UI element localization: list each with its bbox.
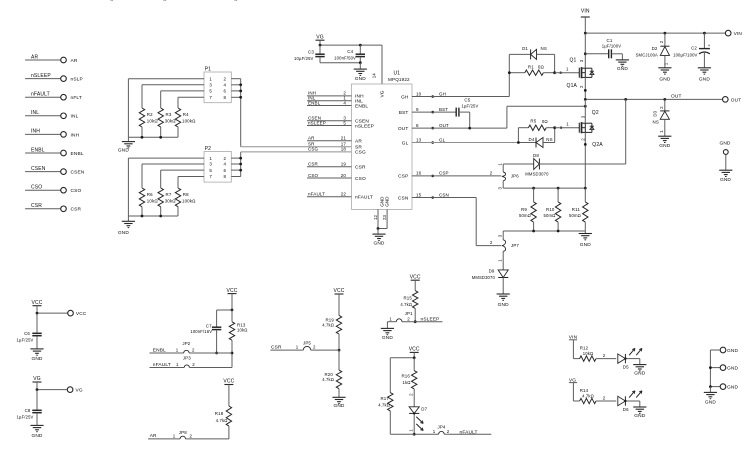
svg-text:4: 4 bbox=[224, 83, 227, 88]
capacitor C1 1uF/100V bbox=[585, 53, 608, 55]
resistor R5 0ohm bbox=[517, 128, 519, 143]
wire P1 right pins to bus bbox=[231, 78, 240, 80]
svg-text:VG: VG bbox=[76, 388, 83, 394]
wire net CSR input bbox=[25, 208, 61, 210]
svg-text:ENBL: ENBL bbox=[308, 100, 321, 105]
svg-text:100kΩ: 100kΩ bbox=[182, 198, 196, 203]
svg-text:g: g bbox=[110, 0, 114, 2]
junction dots OUT pin path bbox=[468, 127, 471, 130]
wire VG terminal bbox=[36, 382, 38, 390]
svg-text:CSEN: CSEN bbox=[31, 166, 46, 172]
wire P1 pin7 to R4 bbox=[178, 96, 204, 98]
svg-text:100nF/50V: 100nF/50V bbox=[334, 56, 356, 61]
junction dots Q2 gate node bbox=[517, 141, 520, 144]
junction dot VG bbox=[36, 388, 39, 391]
ground terminal block bbox=[709, 387, 711, 393]
svg-text:NS: NS bbox=[653, 119, 659, 124]
wire GH to gate network bbox=[412, 96, 509, 98]
svg-text:MMSD3070: MMSD3070 bbox=[472, 275, 496, 280]
svg-text:18: 18 bbox=[341, 147, 347, 152]
svg-text:2: 2 bbox=[224, 156, 227, 161]
svg-text:CSR: CSR bbox=[271, 345, 282, 351]
terminal nFLT bbox=[61, 94, 67, 100]
svg-text:CSG: CSG bbox=[308, 147, 319, 152]
resistor R19 4.7k bbox=[338, 294, 340, 315]
svg-text:4: 4 bbox=[343, 100, 346, 105]
U1 pin 2 INH bbox=[307, 95, 352, 97]
svg-text:2: 2 bbox=[490, 170, 493, 175]
svg-text:OUT: OUT bbox=[671, 94, 682, 100]
svg-text:VCC: VCC bbox=[410, 274, 421, 280]
ground C1 bbox=[621, 54, 623, 60]
capacitor C6 1uF/25V bbox=[36, 313, 38, 333]
wire Q2 gate bbox=[555, 127, 580, 129]
svg-text:1µF/25V: 1µF/25V bbox=[462, 103, 479, 108]
wire VG rail bbox=[319, 40, 321, 45]
capacitor C5 1uF/25V bbox=[455, 108, 457, 117]
capacitor C2 100uF/100V polarized bbox=[703, 33, 705, 49]
wire net INL input bbox=[25, 115, 61, 117]
junction dots Q1 gate node bbox=[508, 71, 511, 74]
ground floating terminal bbox=[719, 169, 732, 171]
svg-text:1µF/25V: 1µF/25V bbox=[17, 338, 34, 343]
svg-text:GND: GND bbox=[617, 66, 628, 72]
svg-text:C8: C8 bbox=[25, 408, 31, 413]
svg-text:GL: GL bbox=[402, 140, 409, 146]
svg-text:CSO: CSO bbox=[71, 188, 82, 194]
ground D5 bbox=[639, 359, 641, 365]
terminal ENBL bbox=[61, 150, 67, 156]
wire GND terminal to ground bbox=[725, 154, 727, 170]
resistor R2 10k bbox=[141, 85, 143, 108]
wire OUT pin 8 bbox=[412, 127, 507, 129]
U1 pin 20 CSO bbox=[307, 177, 352, 179]
svg-text:100nF/16V: 100nF/16V bbox=[190, 329, 212, 334]
svg-text:BST: BST bbox=[399, 110, 409, 116]
wire U1 ground pins bbox=[377, 209, 379, 228]
svg-text:GND: GND bbox=[699, 77, 710, 83]
junction dot Q2 source bbox=[584, 143, 587, 146]
svg-text:AR: AR bbox=[31, 54, 38, 60]
svg-text:g: g bbox=[234, 0, 238, 2]
svg-text:CSR: CSR bbox=[308, 162, 319, 167]
ground D6 bbox=[639, 401, 641, 407]
svg-text:VG: VG bbox=[380, 90, 386, 97]
wire R1 D1 right leg bbox=[554, 54, 556, 72]
wire GND terminals bus bbox=[709, 350, 711, 387]
connector P1 bbox=[204, 72, 231, 103]
svg-text:7: 7 bbox=[209, 174, 212, 179]
terminal OUT bbox=[723, 97, 729, 103]
svg-text:1: 1 bbox=[433, 429, 436, 434]
LED D5 arrows bbox=[629, 348, 635, 355]
svg-text:10: 10 bbox=[416, 91, 422, 96]
junction dot CSR node bbox=[338, 349, 341, 352]
ground P1 network bbox=[127, 137, 129, 141]
svg-text:D4: D4 bbox=[529, 137, 535, 142]
svg-text:nSLP: nSLP bbox=[71, 77, 83, 83]
svg-text:R12: R12 bbox=[580, 346, 589, 351]
wire resistor bottom rail P1 bbox=[128, 136, 178, 138]
svg-text:D7: D7 bbox=[421, 407, 427, 412]
resistor R1 0ohm bbox=[509, 72, 525, 74]
svg-text:OUT: OUT bbox=[731, 97, 742, 103]
svg-text:CSO: CSO bbox=[355, 176, 366, 182]
ground D3 bbox=[658, 135, 671, 137]
svg-text:4.7kΩ: 4.7kΩ bbox=[582, 393, 594, 398]
wire P1 pin1 to GND rail bbox=[128, 78, 204, 80]
svg-text:50mΩ: 50mΩ bbox=[544, 213, 556, 218]
transistor Q1 Q1A N-MOSFET bbox=[578, 68, 580, 78]
jumper JP1 net nSLEEP bbox=[387, 321, 396, 323]
wire C3 C4 ground rail bbox=[320, 62, 360, 64]
resistor R14 4.7k bbox=[573, 400, 579, 402]
capacitor C4 100nF/50V bbox=[359, 45, 361, 54]
svg-text:nFAULT: nFAULT bbox=[31, 92, 50, 98]
svg-text:9: 9 bbox=[416, 107, 419, 112]
svg-text:1: 1 bbox=[566, 67, 569, 72]
jumper JP6 bbox=[502, 164, 504, 172]
svg-text:nSLEEP: nSLEEP bbox=[31, 73, 51, 79]
junction dots VG rail bbox=[319, 44, 322, 47]
wire VG to R14 bbox=[572, 383, 574, 401]
svg-text:16: 16 bbox=[416, 171, 422, 176]
wire R5 D4 right leg bbox=[554, 128, 556, 143]
svg-text:R19: R19 bbox=[325, 317, 334, 322]
terminal CSO bbox=[61, 187, 67, 193]
terminal VIN bbox=[725, 30, 731, 36]
svg-text:5: 5 bbox=[343, 120, 346, 125]
resistor R15 4.7k bbox=[414, 280, 416, 290]
terminal VG bbox=[67, 387, 73, 393]
LED D6 arrows bbox=[629, 391, 635, 398]
svg-text:8: 8 bbox=[224, 95, 227, 100]
svg-text:0Ω: 0Ω bbox=[538, 64, 545, 69]
junction dot R16 top bbox=[413, 356, 416, 359]
svg-text:2: 2 bbox=[490, 240, 493, 245]
svg-text:NS: NS bbox=[541, 46, 547, 51]
svg-text:U1: U1 bbox=[394, 71, 401, 77]
wire VIN rail bbox=[585, 32, 725, 34]
svg-text:7: 7 bbox=[209, 95, 212, 100]
U1 pin 21 AR bbox=[307, 140, 352, 142]
wire Q1 drain bbox=[584, 33, 586, 68]
svg-text:2: 2 bbox=[447, 429, 450, 434]
diode D3 NS bbox=[664, 99, 666, 111]
svg-text:nFAULT: nFAULT bbox=[355, 195, 373, 201]
svg-text:GND: GND bbox=[498, 302, 509, 308]
svg-text:C4: C4 bbox=[347, 49, 353, 54]
wire sense resistor top rail bbox=[503, 187, 585, 189]
svg-text:VCC: VCC bbox=[223, 379, 234, 385]
wire net CSG to U1 bbox=[241, 151, 352, 153]
svg-text:21: 21 bbox=[341, 136, 347, 141]
wire net INH input bbox=[25, 133, 61, 135]
svg-text:VCC: VCC bbox=[76, 311, 87, 317]
svg-text:CSO: CSO bbox=[308, 173, 319, 178]
junction dot VCC bbox=[36, 312, 39, 315]
resistor R13 10k bbox=[231, 310, 233, 322]
svg-text:C3: C3 bbox=[308, 49, 314, 54]
svg-text:INH: INH bbox=[71, 132, 80, 138]
svg-text:nFLT: nFLT bbox=[71, 95, 82, 101]
terminal GND 3 bbox=[720, 384, 726, 390]
transistor Q2 Q2A N-MOSFET bbox=[578, 123, 580, 133]
svg-text:NS: NS bbox=[546, 137, 552, 142]
svg-text:3: 3 bbox=[209, 83, 212, 88]
svg-text:Q2A: Q2A bbox=[592, 142, 603, 148]
wire net nSLEEP input bbox=[25, 78, 61, 80]
wire P2 pin5 to R7 bbox=[161, 169, 204, 171]
ground C8 bbox=[30, 424, 43, 426]
svg-text:10µF/25V: 10µF/25V bbox=[294, 56, 313, 61]
resistor R18 4.7k bbox=[228, 385, 230, 407]
svg-text:R3: R3 bbox=[166, 112, 172, 117]
svg-text:MPQ1922: MPQ1922 bbox=[388, 77, 410, 82]
wire net GL bbox=[412, 142, 518, 144]
wire net ENBL jumper JP2 bbox=[150, 352, 184, 354]
resistor R4 100k bbox=[177, 97, 179, 108]
svg-text:2: 2 bbox=[192, 362, 195, 367]
svg-text:14: 14 bbox=[372, 73, 377, 78]
capacitor C7 100nF/16V bbox=[216, 310, 218, 327]
diode D2 SMCJ100A TVS bbox=[664, 33, 666, 46]
svg-text:ENBL: ENBL bbox=[71, 151, 84, 157]
U1 pin 22 nFAULT bbox=[307, 196, 352, 198]
svg-text:R5: R5 bbox=[530, 119, 536, 124]
svg-text:CSP: CSP bbox=[398, 174, 408, 180]
LED D7 arrows bbox=[416, 417, 423, 424]
LED D6 bbox=[618, 396, 626, 405]
ground D9 bbox=[497, 293, 510, 295]
svg-text:R1: R1 bbox=[528, 64, 534, 69]
svg-text:GND: GND bbox=[118, 230, 129, 236]
svg-text:2: 2 bbox=[190, 433, 193, 438]
ground D2 bbox=[658, 67, 671, 69]
svg-text:GH: GH bbox=[401, 94, 409, 100]
svg-text:GND: GND bbox=[659, 143, 670, 149]
junction dots GND bus bbox=[709, 366, 712, 369]
svg-text:Q2: Q2 bbox=[592, 110, 599, 116]
svg-text:R7: R7 bbox=[166, 192, 172, 197]
svg-text:CSN: CSN bbox=[439, 192, 449, 197]
op-amp U1 MPQ1922 gate driver IC bbox=[352, 84, 413, 209]
svg-text:GND: GND bbox=[580, 242, 591, 248]
svg-text:D8: D8 bbox=[533, 153, 539, 158]
svg-text:ENBL: ENBL bbox=[153, 347, 166, 353]
svg-text:GND: GND bbox=[382, 335, 393, 341]
svg-text:1: 1 bbox=[209, 156, 212, 161]
svg-text:VIN: VIN bbox=[734, 31, 743, 37]
svg-text:Q1: Q1 bbox=[570, 58, 577, 64]
wire BST stub bbox=[412, 111, 456, 113]
svg-text:1: 1 bbox=[173, 433, 176, 438]
svg-text:R13: R13 bbox=[237, 322, 246, 327]
svg-text:C1: C1 bbox=[607, 38, 613, 43]
wire sense resistor bottom rail bbox=[503, 230, 585, 232]
terminal INL bbox=[61, 113, 67, 119]
svg-text:12: 12 bbox=[373, 215, 378, 220]
svg-text:GND: GND bbox=[720, 177, 731, 183]
svg-text:CSR: CSR bbox=[355, 165, 366, 171]
wire P1 pin3 to R2 bbox=[142, 84, 204, 86]
svg-text:4.7kΩ: 4.7kΩ bbox=[322, 323, 334, 328]
svg-text:10kΩ: 10kΩ bbox=[583, 351, 593, 356]
svg-text:CSP: CSP bbox=[439, 171, 449, 176]
svg-text:30kΩ: 30kΩ bbox=[165, 198, 177, 203]
diode D1 NS bbox=[508, 54, 510, 72]
wire P2 pin3 to R6 bbox=[142, 163, 204, 165]
svg-text:1kΩ: 1kΩ bbox=[402, 380, 410, 385]
terminal CSR bbox=[61, 206, 67, 212]
svg-text:2: 2 bbox=[224, 76, 227, 81]
wire P2 pin7 to R8 bbox=[178, 176, 204, 178]
junction dots sense bottom rail bbox=[532, 230, 535, 233]
junction dot Q1 source bbox=[584, 89, 587, 92]
wire C5 to OUT bbox=[459, 111, 470, 113]
svg-text:15: 15 bbox=[416, 192, 422, 197]
ground C4 bbox=[359, 63, 361, 69]
wire VIN to R12 bbox=[572, 340, 574, 359]
ground C2 bbox=[703, 53, 705, 68]
svg-text:2: 2 bbox=[313, 345, 316, 350]
svg-text:D6: D6 bbox=[623, 407, 629, 412]
junction dots sense top rail bbox=[532, 187, 535, 190]
svg-text:13: 13 bbox=[416, 137, 422, 142]
svg-text:D1: D1 bbox=[522, 46, 528, 51]
svg-text:GND: GND bbox=[355, 76, 366, 82]
svg-text:C5: C5 bbox=[464, 98, 470, 103]
svg-text:5: 5 bbox=[209, 168, 212, 173]
svg-text:GND: GND bbox=[118, 147, 129, 153]
svg-text:R18: R18 bbox=[215, 411, 224, 416]
U1 pin 5 nSLEEP bbox=[307, 125, 352, 127]
svg-text:nSLEEP: nSLEEP bbox=[355, 123, 374, 129]
svg-text:6: 6 bbox=[224, 89, 227, 94]
svg-text:1: 1 bbox=[296, 345, 299, 350]
wire OUT rail bbox=[585, 98, 722, 100]
svg-text:CSR: CSR bbox=[71, 207, 82, 213]
svg-text:VCC: VCC bbox=[31, 300, 42, 306]
wire P2 right pins to bus bbox=[231, 157, 240, 159]
svg-text:CSN: CSN bbox=[398, 195, 409, 201]
svg-text:CSEN: CSEN bbox=[71, 170, 85, 176]
resistor R17 4.7k bbox=[389, 358, 391, 393]
ground R20 bbox=[332, 396, 345, 398]
svg-text:Q1A: Q1A bbox=[567, 83, 578, 89]
wire net ENBL input bbox=[25, 152, 61, 154]
resistor R20 4.7k bbox=[338, 350, 340, 370]
svg-text:50mΩ: 50mΩ bbox=[519, 213, 531, 218]
svg-text:nSLEEP: nSLEEP bbox=[421, 317, 440, 323]
svg-text:GND: GND bbox=[719, 141, 730, 147]
svg-text:GND: GND bbox=[634, 413, 645, 419]
svg-text:OUT: OUT bbox=[439, 123, 449, 128]
svg-text:2: 2 bbox=[192, 347, 195, 352]
terminal INH bbox=[61, 132, 67, 138]
svg-text:JP1: JP1 bbox=[405, 311, 413, 316]
junction dots P1 rail bbox=[141, 136, 144, 139]
svg-text:GND: GND bbox=[634, 371, 645, 377]
wire net CSP to JP6 bbox=[412, 175, 501, 177]
resistor R6 10k bbox=[141, 164, 143, 188]
svg-text:C6: C6 bbox=[24, 331, 30, 336]
svg-text:R14: R14 bbox=[580, 388, 589, 393]
ground R11 bbox=[579, 233, 592, 235]
wire P2 output bus vertical bbox=[240, 152, 242, 177]
junction dots ENBL node bbox=[215, 352, 218, 355]
svg-text:2: 2 bbox=[407, 316, 410, 321]
svg-text:4.7kΩ: 4.7kΩ bbox=[322, 377, 334, 382]
svg-text:1: 1 bbox=[176, 347, 179, 352]
wire Q2 drain from OUT node bbox=[584, 99, 586, 122]
wire net AR input bbox=[25, 59, 61, 61]
wire VCC terminal bbox=[36, 306, 38, 313]
junction dot R13 top bbox=[231, 309, 234, 312]
LED D7 bbox=[409, 407, 419, 414]
resistor R11 50mohm bbox=[584, 188, 586, 202]
jumper JP7 bbox=[502, 231, 504, 240]
svg-text:JP5: JP5 bbox=[303, 341, 311, 346]
svg-text:20: 20 bbox=[341, 173, 347, 178]
svg-text:4: 4 bbox=[224, 162, 227, 167]
junction dot U1 gnd bbox=[377, 227, 380, 230]
svg-text:SMCJ100A: SMCJ100A bbox=[636, 52, 658, 57]
svg-text:1µF/100V: 1µF/100V bbox=[602, 44, 621, 49]
wire VCC to R16 R17 bbox=[413, 352, 415, 357]
terminal CSEN bbox=[61, 169, 67, 175]
junction dots P2 bus bbox=[239, 157, 242, 160]
svg-text:VIN: VIN bbox=[581, 9, 590, 15]
svg-text:4.7kΩ: 4.7kΩ bbox=[400, 302, 412, 307]
wire net AR jumper JP8 bbox=[148, 438, 180, 440]
svg-text:CSO: CSO bbox=[31, 185, 42, 191]
svg-text:SR: SR bbox=[355, 145, 362, 151]
svg-text:JP2: JP2 bbox=[182, 341, 190, 346]
svg-text:CSG: CSG bbox=[355, 150, 366, 156]
svg-text:GND: GND bbox=[727, 385, 738, 391]
terminal VCC bbox=[68, 310, 74, 316]
junction dot C1 tap bbox=[584, 52, 587, 55]
jumper JP4 net nFAULT bbox=[390, 433, 438, 435]
wire net CSR jumper JP5 bbox=[270, 349, 303, 351]
svg-text:10kΩ: 10kΩ bbox=[147, 198, 159, 203]
svg-text:R8: R8 bbox=[183, 192, 189, 197]
resistor R16 1k bbox=[413, 358, 415, 371]
resistor R12 10k bbox=[573, 358, 579, 360]
svg-text:10kΩ: 10kΩ bbox=[147, 118, 159, 123]
svg-text:22: 22 bbox=[341, 192, 347, 197]
svg-text:GND: GND bbox=[373, 240, 384, 246]
svg-text:GND: GND bbox=[31, 356, 42, 362]
svg-text:+: + bbox=[708, 44, 711, 49]
svg-text:GND: GND bbox=[333, 403, 344, 409]
svg-text:GND: GND bbox=[385, 196, 390, 207]
svg-text:R2: R2 bbox=[147, 112, 153, 117]
capacitor C3 10uF/25V bbox=[319, 45, 321, 54]
svg-text:1µF/25V: 1µF/25V bbox=[17, 415, 34, 420]
svg-text:R16: R16 bbox=[401, 374, 410, 379]
wire net CSN to JP7 bbox=[412, 197, 476, 199]
svg-text:JP8: JP8 bbox=[179, 430, 187, 435]
svg-text:CSR: CSR bbox=[31, 203, 42, 209]
wire P2 pin1 to GND rail bbox=[128, 157, 204, 159]
svg-text:JP3: JP3 bbox=[183, 356, 191, 361]
wire net CSEN input bbox=[25, 171, 61, 173]
wire resistor bottom rail P2 bbox=[128, 215, 178, 217]
svg-text:GND: GND bbox=[379, 196, 384, 207]
svg-text:19: 19 bbox=[341, 162, 347, 167]
